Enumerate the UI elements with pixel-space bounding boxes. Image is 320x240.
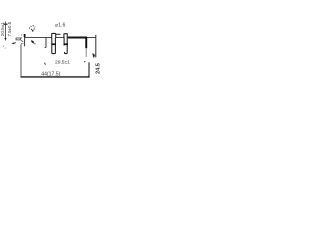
svg-text:29.5±1: 29.5±1 xyxy=(55,60,70,66)
svg-text:44(17.5): 44(17.5) xyxy=(41,71,60,77)
svg-text:7.5±0.5: 7.5±0.5 xyxy=(7,21,12,36)
svg-text:24.5: 24.5 xyxy=(95,63,100,74)
svg-text:20.5±1: 20.5±1 xyxy=(0,22,5,36)
svg-text:⌀1.6: ⌀1.6 xyxy=(55,23,65,29)
